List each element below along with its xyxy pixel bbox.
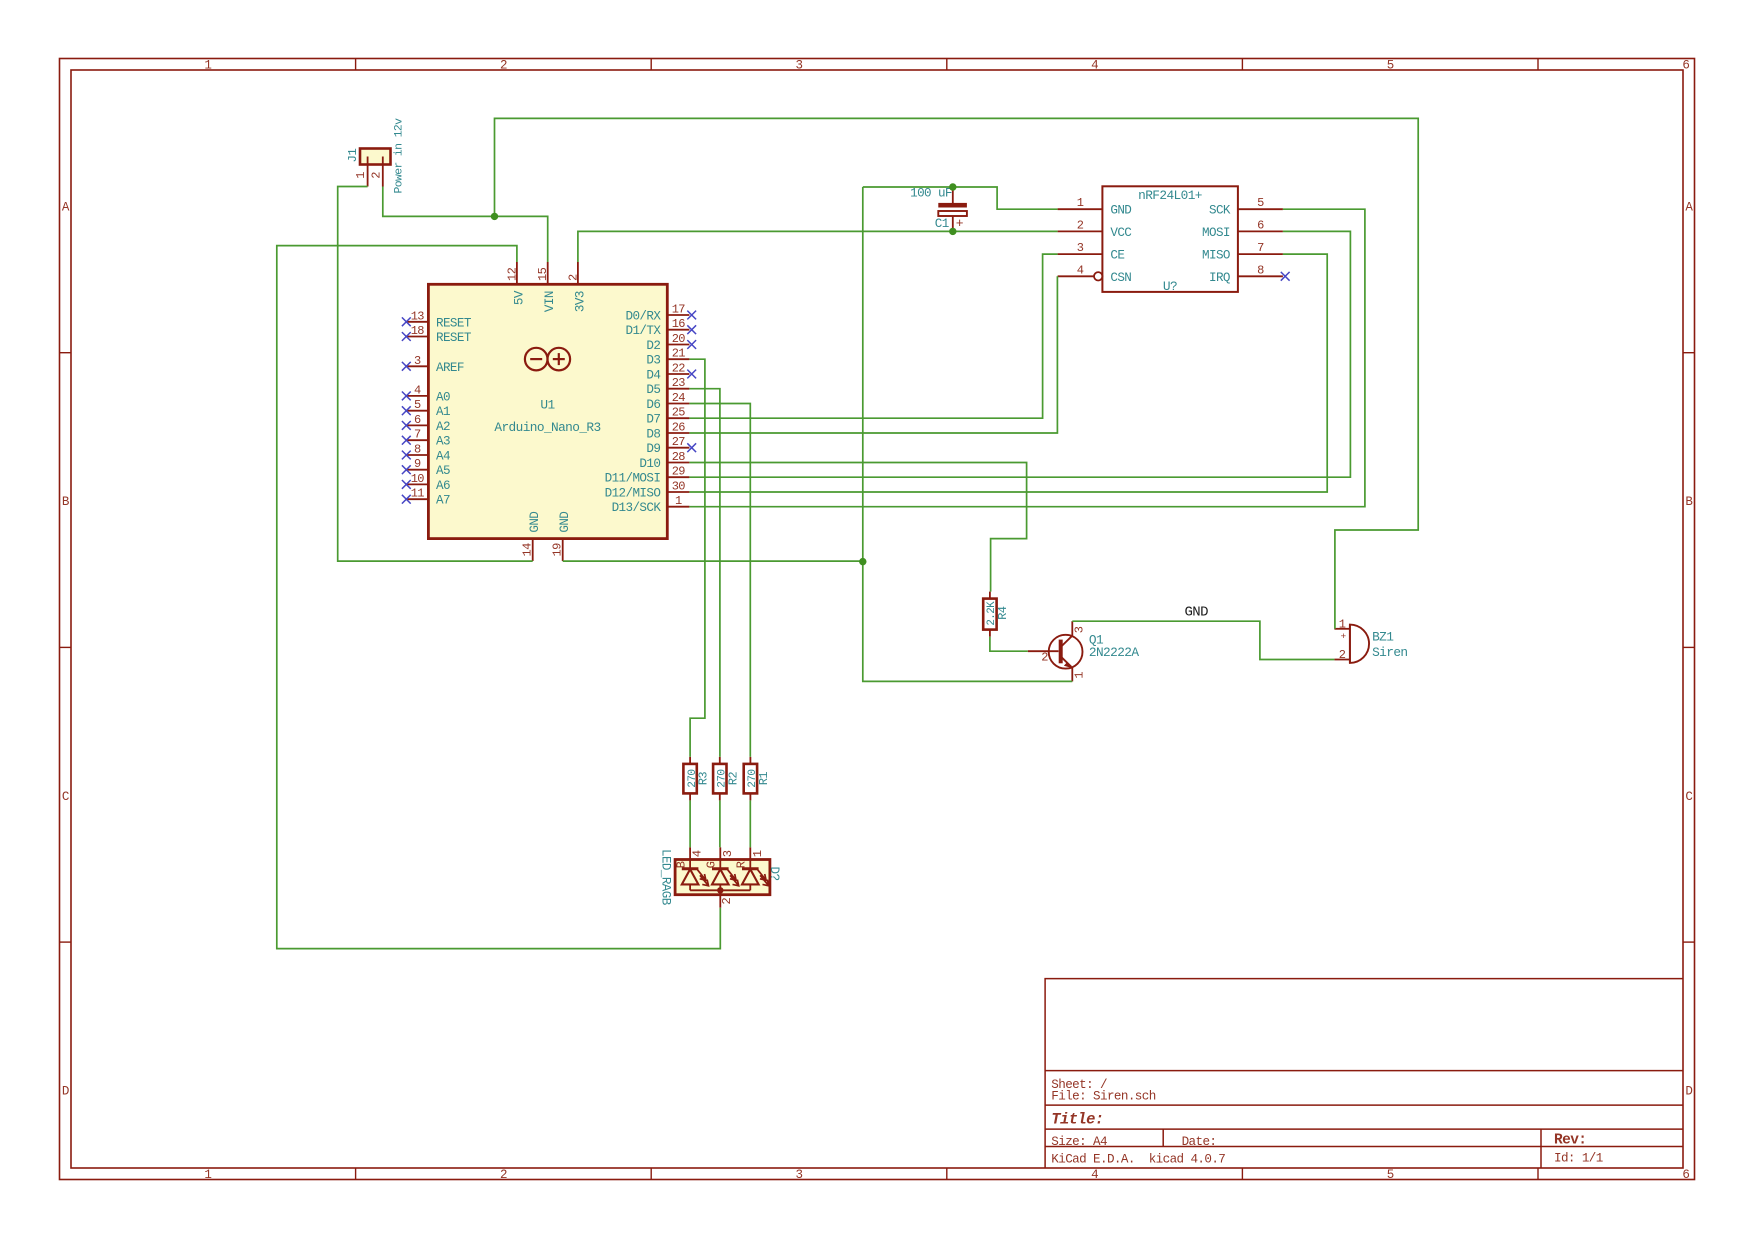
svg-text:12: 12 [505, 267, 519, 281]
svg-text:D5: D5 [646, 383, 660, 397]
Q1 base bar [1059, 640, 1063, 664]
svg-text:5: 5 [1257, 196, 1264, 210]
wire 12V top rail to BZ1 pin 1 [495, 118, 1419, 628]
no-connect X pin 20 [687, 340, 696, 349]
svg-text:D2: D2 [646, 339, 660, 353]
svg-text:D12/MISO: D12/MISO [605, 487, 661, 501]
wire J1 pin2 to U1 VIN [383, 187, 548, 263]
svg-text:4: 4 [414, 383, 421, 397]
svg-text:D3: D3 [646, 354, 660, 368]
LED D? LED_RAGB body [675, 860, 770, 895]
svg-text:CSN: CSN [1110, 271, 1131, 285]
svg-text:A0: A0 [436, 390, 450, 404]
svg-text:Size: A4: Size: A4 [1051, 1135, 1107, 1149]
svg-text:2: 2 [566, 274, 580, 281]
U1 polarity symbol circles [525, 348, 570, 371]
svg-text:D9: D9 [646, 442, 660, 456]
no-connect X pin 13 [402, 317, 411, 326]
junction [949, 183, 956, 190]
U? pin 4 inversion bubble [1094, 272, 1102, 280]
svg-text:2: 2 [720, 898, 734, 905]
U? pin 1 GND [1058, 196, 1132, 218]
LED G cathode bar [712, 867, 729, 870]
svg-text:1: 1 [675, 494, 682, 508]
svg-text:1: 1 [204, 59, 211, 73]
U1 pin 26 D8 [646, 421, 689, 442]
svg-text:A4: A4 [436, 450, 450, 464]
no-connect X pin 9 [402, 465, 411, 474]
U1 pin 24 D6 [646, 391, 689, 412]
svg-text:R3: R3 [697, 772, 711, 786]
svg-text:1: 1 [1339, 617, 1346, 631]
svg-text:100 uF: 100 uF [910, 187, 952, 201]
no-connect X pin 27 [687, 443, 696, 452]
svg-text:D11/MOSI: D11/MOSI [605, 472, 661, 486]
LED B triangle [682, 869, 699, 884]
title block outline [1045, 979, 1683, 1168]
wire R1 to D? pin1 [749, 800, 751, 847]
U1 pin 11 A7 [402, 487, 450, 508]
IC U? nRF24L01+ body [1102, 186, 1238, 292]
svg-text:21: 21 [672, 347, 686, 361]
svg-text:10: 10 [411, 472, 425, 486]
U1 pin 2 3V3 (top) [566, 262, 587, 312]
svg-text:6: 6 [414, 413, 421, 427]
U1 pin 28 D10 [639, 450, 689, 471]
D? pin 2 [719, 890, 721, 907]
U1 pin 15 VIN (top) [536, 262, 557, 312]
U1 pin 16 D1/TX [626, 317, 697, 338]
svg-text:D6: D6 [646, 398, 660, 412]
U1 pin 3 AREF [402, 354, 464, 375]
U? pin 7 MISO [1202, 241, 1283, 263]
svg-text:2: 2 [369, 172, 383, 179]
no-connect X pin 16 [687, 325, 696, 334]
wire GND rail down to Q1 emitter [863, 187, 1073, 681]
resistor R3 270 [683, 757, 710, 801]
svg-text:2: 2 [500, 59, 507, 73]
svg-text:3: 3 [721, 850, 735, 857]
svg-text:SCK: SCK [1209, 204, 1231, 218]
wire U1 D10 to R4 top [689, 463, 1026, 592]
U1 pin 27 D9 [646, 435, 696, 456]
U1 pin 17 D0/RX [626, 303, 697, 324]
svg-text:R1: R1 [757, 772, 771, 786]
svg-text:A3: A3 [436, 435, 450, 449]
svg-text:KiCad E.D.A. kicad 4.0.7: KiCad E.D.A. kicad 4.0.7 [1051, 1152, 1225, 1166]
no-connect X pin 11 [402, 495, 411, 504]
svg-text:9: 9 [414, 457, 421, 471]
svg-text:28: 28 [672, 450, 686, 464]
J1 pin 2 [382, 157, 384, 187]
U1 pin 4 A0 [402, 383, 450, 404]
svg-text:7: 7 [414, 428, 421, 442]
no-connect X pin 5 [402, 406, 411, 415]
frame column labels [204, 59, 1689, 1183]
svg-text:1: 1 [1077, 196, 1084, 210]
svg-text:C: C [62, 790, 69, 804]
wire U1 D6 to R1 [689, 404, 750, 757]
LED R cathode bar [742, 867, 759, 870]
frame row labels [62, 200, 1694, 1098]
LED B emission arrows [698, 870, 706, 880]
svg-text:1: 1 [1073, 672, 1087, 679]
wire R2 to D? pin3 [719, 800, 721, 847]
U1 pin 21 D3 [646, 347, 689, 368]
svg-text:11: 11 [411, 487, 425, 501]
svg-text:A1: A1 [436, 405, 450, 419]
svg-text:5: 5 [1387, 59, 1394, 73]
U? pin 2 VCC [1058, 218, 1133, 240]
wire U? CE to U1 D7 [689, 254, 1057, 418]
svg-text:4: 4 [1091, 1168, 1098, 1182]
U? pin 8 IRQ [1209, 263, 1290, 285]
wire U1 GND pin19 to GND rail [563, 560, 863, 562]
BZ1 pin 2 [1334, 659, 1350, 661]
svg-text:A2: A2 [436, 420, 450, 434]
U1 pin 7 A3 [402, 428, 450, 449]
svg-text:1: 1 [751, 850, 765, 857]
no-connect X pin 7 [402, 436, 411, 445]
resistor R4 2.2K [983, 592, 1010, 637]
resistor R2 270 [713, 757, 740, 801]
svg-text:13: 13 [411, 309, 425, 323]
svg-text:22: 22 [672, 362, 686, 376]
LED B cathode bar [682, 867, 699, 870]
frame column ticks [356, 59, 1538, 1180]
svg-text:C1: C1 [935, 217, 949, 231]
no-connect X pin 17 [687, 311, 696, 320]
U1 pin 25 D7 [646, 406, 689, 427]
U1 pin 22 D4 [646, 362, 696, 383]
LED R emission arrows [758, 870, 766, 880]
svg-text:GND: GND [1185, 604, 1209, 620]
svg-text:Siren: Siren [1372, 645, 1407, 660]
svg-text:2: 2 [1041, 651, 1048, 665]
BZ1 pin 1 [1334, 628, 1350, 630]
svg-text:GND: GND [1110, 204, 1131, 218]
U1 pin 9 A5 [402, 457, 450, 478]
wire U1 D3 to R3 [689, 359, 705, 757]
U? pin 3 CE [1058, 241, 1125, 263]
Q1 collector [1061, 636, 1073, 647]
no-connect X pin 3 [402, 362, 411, 371]
D? pin 3 / LED G [705, 847, 739, 890]
wire J1 pin1 to U1 GND pin14 [338, 187, 533, 562]
D? internal common rail [690, 889, 750, 891]
no-connect X pin 18 [402, 332, 411, 341]
svg-text:15: 15 [536, 267, 550, 281]
svg-text:29: 29 [672, 465, 686, 479]
svg-text:26: 26 [672, 421, 686, 435]
svg-text:3: 3 [796, 1168, 803, 1182]
svg-text:RESET: RESET [436, 316, 472, 330]
svg-text:24: 24 [672, 391, 686, 405]
svg-text:4: 4 [691, 850, 705, 857]
svg-text:3: 3 [796, 59, 803, 73]
svg-text:1: 1 [354, 172, 368, 179]
no-connect X U? pin 8 [1281, 272, 1290, 281]
svg-text:R2: R2 [726, 772, 740, 786]
svg-text:Rev:: Rev: [1554, 1133, 1586, 1149]
U1 pin 12 5V (top) [505, 262, 526, 305]
no-connect X pin 6 [402, 421, 411, 430]
svg-text:File: Siren.sch: File: Siren.sch [1051, 1090, 1155, 1104]
transistor Q1 2N2222A [1028, 621, 1140, 681]
capacitor C1 100uF [910, 187, 967, 232]
no-connect X pin 22 [687, 370, 696, 379]
svg-text:6: 6 [1682, 1168, 1689, 1182]
svg-text:18: 18 [411, 324, 425, 338]
svg-text:2N2222A: 2N2222A [1089, 645, 1139, 660]
svg-text:A7: A7 [436, 494, 450, 508]
svg-text:D?: D? [767, 867, 781, 881]
svg-text:5: 5 [414, 398, 421, 412]
svg-text:6: 6 [1682, 59, 1689, 73]
svg-text:IRQ: IRQ [1209, 271, 1230, 285]
svg-text:1: 1 [204, 1168, 211, 1182]
svg-text:23: 23 [672, 376, 686, 390]
U1 pin 8 A4 [402, 443, 450, 464]
junction [949, 228, 956, 235]
wire U1 D5 to R2 [689, 389, 720, 757]
U1 pin 19 GND (bottom) [551, 512, 573, 561]
svg-text:8: 8 [414, 443, 421, 457]
U? pin 6 MOSI [1202, 218, 1283, 240]
svg-text:B: B [1685, 495, 1693, 509]
svg-text:Title:: Title: [1051, 1111, 1103, 1129]
svg-text:MOSI: MOSI [1202, 226, 1230, 240]
svg-text:CE: CE [1110, 249, 1124, 263]
J1 pin 1 [367, 157, 369, 187]
svg-text:4: 4 [1077, 263, 1084, 277]
svg-text:B: B [62, 495, 70, 509]
wire R4 bottom to Q1 base [990, 637, 1028, 652]
buzzer BZ1 Siren [1334, 617, 1407, 663]
U1 pin 18 RESET [402, 324, 472, 345]
svg-text:BZ1: BZ1 [1372, 629, 1394, 644]
svg-text:17: 17 [672, 303, 686, 317]
svg-text:VIN: VIN [543, 291, 557, 312]
resistor R1 270 [744, 757, 771, 801]
no-connect X pin 10 [402, 480, 411, 489]
U1 pin 30 D12/MISO [605, 480, 690, 501]
C1 pin 2 [952, 216, 954, 231]
svg-text:GND: GND [528, 512, 542, 533]
frame row ticks [60, 353, 1695, 942]
LED G emission arrows [728, 870, 736, 880]
U1 pin 5 A1 [402, 398, 450, 419]
svg-text:AREF: AREF [436, 361, 464, 375]
svg-text:14: 14 [521, 543, 535, 557]
svg-text:U1: U1 [540, 398, 555, 413]
svg-text:3: 3 [414, 354, 421, 368]
svg-text:20: 20 [672, 332, 686, 346]
svg-text:2: 2 [1339, 648, 1346, 662]
svg-text:C: C [1685, 790, 1692, 804]
svg-text:D: D [62, 1085, 69, 1099]
svg-text:5V: 5V [512, 290, 526, 305]
svg-text:Date:: Date: [1182, 1135, 1217, 1149]
C1 bottom plate [938, 211, 967, 216]
svg-text:D4: D4 [646, 369, 660, 383]
svg-text:19: 19 [551, 543, 565, 557]
svg-text:Power in 12v: Power in 12v [393, 118, 405, 194]
Q1 pin 2 base [1028, 650, 1059, 652]
D? internal junction [717, 887, 723, 893]
svg-text:LED_RAGB: LED_RAGB [658, 849, 672, 906]
wire U1 D11/MOSI to U? MOSI [689, 231, 1350, 477]
U? pin 5 SCK [1209, 196, 1283, 218]
U1 pin 10 A6 [402, 472, 450, 493]
svg-text:30: 30 [672, 480, 686, 494]
LED R triangle [742, 869, 759, 884]
Q1 emitter with arrow [1061, 656, 1072, 666]
svg-text:GND: GND [558, 512, 572, 533]
svg-text:3: 3 [1077, 241, 1084, 255]
svg-text:D13/SCK: D13/SCK [612, 501, 662, 515]
svg-text:2: 2 [1077, 218, 1084, 232]
svg-text:2: 2 [500, 1168, 507, 1182]
svg-text:5: 5 [1387, 1168, 1394, 1182]
svg-text:+: + [956, 216, 964, 231]
svg-text:D: D [1685, 1085, 1692, 1099]
no-connect X pin 4 [402, 392, 411, 401]
svg-text:nRF24L01+: nRF24L01+ [1138, 188, 1202, 203]
D? pin 4 / LED B [674, 847, 708, 890]
U1 pin 20 D2 [646, 332, 696, 353]
U1 pin 13 RESET [402, 309, 472, 330]
LED G triangle [712, 869, 729, 884]
svg-text:+: + [1340, 631, 1346, 642]
U1 pin 14 GND (bottom) [521, 512, 543, 561]
svg-text:D7: D7 [646, 413, 660, 427]
svg-text:D10: D10 [639, 457, 660, 471]
wire U1 3V3 to U? VCC [578, 231, 1058, 262]
C1 pin 1 [952, 187, 954, 203]
U1 pin 23 D5 [646, 376, 689, 397]
svg-text:A: A [62, 200, 70, 214]
svg-text:VCC: VCC [1110, 226, 1132, 240]
no-connect X pin 8 [402, 451, 411, 460]
svg-text:R4: R4 [996, 606, 1010, 620]
svg-text:Id: 1/1: Id: 1/1 [1554, 1151, 1603, 1165]
U1 pin 29 D11/MOSI [605, 465, 690, 486]
svg-text:D0/RX: D0/RX [626, 310, 662, 324]
svg-text:D1/TX: D1/TX [626, 324, 662, 338]
svg-text:3: 3 [1073, 626, 1087, 633]
svg-text:6: 6 [1257, 218, 1264, 232]
svg-text:J1: J1 [346, 149, 360, 163]
wire GND rail top to U? GND [863, 187, 1058, 209]
svg-text:A6: A6 [436, 479, 450, 493]
svg-text:A5: A5 [436, 464, 450, 478]
wire U? CSN to U1 D8 [689, 276, 1057, 433]
svg-text:7: 7 [1257, 241, 1264, 255]
U? pin 4 CSN [1058, 263, 1132, 285]
wire U1 D13/SCK to U? SCK [689, 209, 1365, 507]
svg-text:3V3: 3V3 [573, 291, 587, 312]
wire U1 D12/MISO to U? MISO [689, 254, 1327, 492]
junction [491, 213, 498, 220]
svg-text:D8: D8 [646, 428, 660, 442]
svg-text:Arduino_Nano_R3: Arduino_Nano_R3 [494, 420, 600, 435]
connector J1 [346, 118, 405, 194]
wire R3 to D? pin4 [689, 800, 691, 847]
U1 pin 6 A2 [402, 413, 450, 434]
svg-text:8: 8 [1257, 263, 1264, 277]
wire U1 5V to D? pin2 (left loop) [277, 246, 721, 949]
C1 top plate [938, 203, 967, 208]
svg-text:A: A [1685, 200, 1693, 214]
junction [859, 558, 866, 565]
svg-text:RESET: RESET [436, 331, 472, 345]
U1 pin 1 D13/SCK [612, 494, 690, 515]
svg-text:25: 25 [672, 406, 686, 420]
wire Q1 collector to BZ1 pin2 (GND label net) [1072, 621, 1334, 659]
svg-text:27: 27 [672, 435, 686, 449]
svg-text:MISO: MISO [1202, 249, 1230, 263]
svg-text:16: 16 [672, 317, 686, 331]
svg-text:U?: U? [1163, 279, 1177, 294]
IC U1 Arduino_Nano_R3 body [428, 284, 667, 538]
svg-text:4: 4 [1091, 59, 1098, 73]
title block text [1051, 1078, 1602, 1166]
D? pin 1 / LED R [735, 847, 769, 890]
